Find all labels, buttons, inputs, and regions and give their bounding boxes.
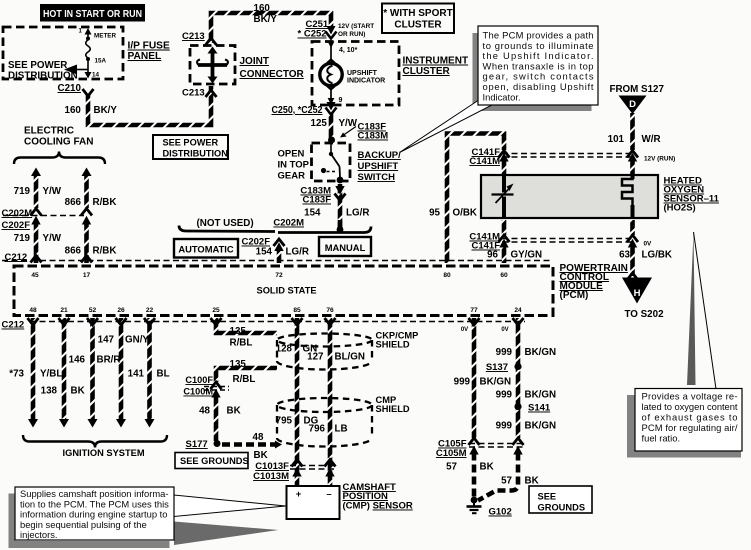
svg-text:0V: 0V <box>501 327 508 333</box>
svg-text:Provides a voltage re-: Provides a voltage re- <box>642 391 738 402</box>
svg-text:48: 48 <box>253 432 264 443</box>
svg-text:S141: S141 <box>528 403 551 414</box>
svg-text:BK/GN: BK/GN <box>480 377 512 388</box>
svg-text:C202M: C202M <box>273 218 304 229</box>
svg-text:138: 138 <box>41 386 58 397</box>
svg-text:R/BL: R/BL <box>230 338 253 349</box>
svg-text:57: 57 <box>446 462 457 473</box>
svg-text:80: 80 <box>443 272 451 279</box>
svg-text:95: 95 <box>429 208 440 219</box>
svg-text:SOLID STATE: SOLID STATE <box>257 286 317 296</box>
svg-text:HOT IN START OR RUN: HOT IN START OR RUN <box>43 9 142 20</box>
svg-text:BR/R: BR/R <box>97 355 121 366</box>
svg-text:* C252: * C252 <box>298 29 327 40</box>
svg-text:*73: *73 <box>9 369 24 380</box>
svg-text:PANEL: PANEL <box>128 51 162 62</box>
svg-text:0V: 0V <box>644 241 653 248</box>
svg-text:C100M: C100M <box>183 387 213 397</box>
svg-text:CLUSTER: CLUSTER <box>394 20 442 31</box>
svg-text:999: 999 <box>496 421 513 432</box>
svg-text:BK: BK <box>227 406 241 417</box>
svg-text:MANUAL: MANUAL <box>325 242 366 253</box>
svg-text:9: 9 <box>339 97 343 104</box>
svg-text:17: 17 <box>83 272 91 279</box>
svg-text:101: 101 <box>608 134 625 145</box>
svg-text:14: 14 <box>92 72 100 79</box>
svg-text:TO S202: TO S202 <box>625 309 665 320</box>
svg-text:C183M: C183M <box>358 131 389 142</box>
svg-text:Indicator.: Indicator. <box>483 91 521 102</box>
svg-text:C100F: C100F <box>185 375 213 385</box>
svg-text:I/P FUSE: I/P FUSE <box>128 41 170 52</box>
svg-text:C141M: C141M <box>469 156 500 167</box>
svg-text:BK/Y: BK/Y <box>94 105 118 116</box>
svg-text:C213: C213 <box>182 88 205 99</box>
svg-text:BK: BK <box>480 462 494 473</box>
svg-text:CLUSTER: CLUSTER <box>403 66 451 77</box>
svg-text:INSTRUMENT: INSTRUMENT <box>403 56 469 67</box>
svg-text:52: 52 <box>89 307 97 314</box>
svg-text:C212: C212 <box>5 252 28 263</box>
svg-text:OR RUN): OR RUN) <box>338 31 365 38</box>
svg-text:135: 135 <box>230 359 247 370</box>
svg-text:Y/W: Y/W <box>43 186 62 197</box>
svg-text:OPEN: OPEN <box>278 149 305 160</box>
svg-text:72: 72 <box>275 272 283 279</box>
svg-text:SEE GROUNDS: SEE GROUNDS <box>180 456 249 466</box>
svg-text:57: 57 <box>501 476 512 487</box>
svg-text:48: 48 <box>199 406 210 417</box>
svg-text:999: 999 <box>496 390 513 401</box>
svg-text:BK/Y: BK/Y <box>254 14 278 25</box>
svg-text:999: 999 <box>496 347 513 358</box>
svg-text:(CMP) SENSOR: (CMP) SENSOR <box>343 501 413 512</box>
svg-text:Y/BL: Y/BL <box>40 369 62 380</box>
svg-text:–: – <box>326 489 331 500</box>
svg-text:63: 63 <box>619 250 630 261</box>
svg-text:SWITCH: SWITCH <box>358 172 396 183</box>
svg-text:* WITH SPORT: * WITH SPORT <box>383 8 452 19</box>
svg-text:BL/GN: BL/GN <box>335 352 365 363</box>
svg-text:12V (RUN): 12V (RUN) <box>644 156 675 163</box>
svg-text:IGNITION SYSTEM: IGNITION SYSTEM <box>63 448 145 458</box>
svg-text:Y/W: Y/W <box>43 233 62 244</box>
svg-text:GEAR: GEAR <box>278 171 306 182</box>
svg-text:LG/R: LG/R <box>346 208 369 219</box>
svg-text:G102: G102 <box>489 507 512 518</box>
svg-text:76: 76 <box>326 307 334 314</box>
svg-text:PCM for regulating air/: PCM for regulating air/ <box>642 422 738 433</box>
svg-text:BK: BK <box>254 450 268 461</box>
svg-text:DISTRIBUTION: DISTRIBUTION <box>8 71 78 82</box>
svg-text:77: 77 <box>470 307 478 314</box>
svg-text:LB: LB <box>335 424 348 435</box>
svg-text:Y/W: Y/W <box>339 118 358 129</box>
svg-text:96: 96 <box>487 250 498 261</box>
svg-text:JOINT: JOINT <box>240 56 269 67</box>
svg-text:(NOT USED): (NOT USED) <box>197 218 254 229</box>
svg-text:H: H <box>634 288 641 299</box>
svg-text:719: 719 <box>14 233 31 244</box>
svg-text:INDICATOR: INDICATOR <box>347 78 385 85</box>
svg-text:BK/GN: BK/GN <box>525 347 557 358</box>
svg-text:of exhaust gases to: of exhaust gases to <box>642 412 738 423</box>
svg-text:D: D <box>629 99 636 110</box>
svg-text:SHIELD: SHIELD <box>376 404 410 414</box>
svg-text:W/R: W/R <box>642 134 661 145</box>
svg-text:48: 48 <box>29 307 37 314</box>
svg-text:S177: S177 <box>186 439 208 450</box>
svg-text:BK: BK <box>525 476 539 487</box>
svg-text:4, 10*: 4, 10* <box>339 47 358 54</box>
svg-text:154: 154 <box>256 247 273 258</box>
svg-text:60: 60 <box>500 272 508 279</box>
svg-text:BACKUP/: BACKUP/ <box>358 150 402 161</box>
svg-text:C202M: C202M <box>2 208 33 219</box>
svg-text:12V (START: 12V (START <box>338 23 374 30</box>
svg-text:(HO2S): (HO2S) <box>664 203 696 214</box>
svg-text:147: 147 <box>98 335 115 346</box>
svg-text:CONNECTOR: CONNECTOR <box>240 69 305 80</box>
svg-text:FROM S127: FROM S127 <box>610 84 665 95</box>
svg-text:GROUNDS: GROUNDS <box>538 503 586 513</box>
svg-text:125: 125 <box>311 118 328 129</box>
svg-text:LG/BK: LG/BK <box>642 250 672 261</box>
svg-text:0V: 0V <box>461 327 468 333</box>
svg-text:R/BK: R/BK <box>93 197 117 208</box>
svg-text:24: 24 <box>514 307 522 314</box>
svg-text:SHIELD: SHIELD <box>376 340 410 350</box>
svg-text:15A: 15A <box>95 58 107 65</box>
svg-text:154: 154 <box>304 208 321 219</box>
svg-text:+: + <box>296 489 302 500</box>
svg-text:C202F: C202F <box>2 220 31 231</box>
svg-text:LG/R: LG/R <box>286 247 309 258</box>
svg-text:BL: BL <box>157 369 170 380</box>
svg-text:C105M: C105M <box>436 448 467 459</box>
svg-text:injectors.: injectors. <box>20 529 58 540</box>
svg-text:C1013M: C1013M <box>253 471 289 482</box>
svg-text:796: 796 <box>309 424 326 435</box>
svg-text:C212: C212 <box>2 320 25 331</box>
svg-text:26: 26 <box>117 307 125 314</box>
svg-text:160: 160 <box>65 105 82 116</box>
svg-text:C183F: C183F <box>302 195 331 206</box>
svg-text:METER: METER <box>94 33 116 40</box>
svg-text:UPSHIFT: UPSHIFT <box>358 161 399 172</box>
svg-text:R/BL: R/BL <box>233 374 256 385</box>
svg-text:SEE POWER: SEE POWER <box>163 138 219 148</box>
svg-text:fuel ratio.: fuel ratio. <box>642 433 681 444</box>
svg-text:AUTOMATIC: AUTOMATIC <box>178 244 234 255</box>
svg-text:146: 146 <box>69 355 86 366</box>
svg-text:21: 21 <box>60 307 68 314</box>
svg-text:S137: S137 <box>486 362 508 373</box>
svg-text:COOLING FAN: COOLING FAN <box>24 137 93 148</box>
svg-text:C210: C210 <box>58 83 82 94</box>
svg-text:BK: BK <box>71 386 85 397</box>
svg-text:(PCM): (PCM) <box>560 290 589 301</box>
svg-text:UPSHIFT: UPSHIFT <box>347 70 378 77</box>
svg-text:BK/GN: BK/GN <box>525 390 557 401</box>
svg-text:719: 719 <box>14 186 31 197</box>
svg-text:999: 999 <box>454 377 471 388</box>
svg-text:C213: C213 <box>182 31 205 42</box>
svg-text:141: 141 <box>128 369 145 380</box>
svg-text:160: 160 <box>254 3 271 14</box>
svg-text:O/BK: O/BK <box>453 208 478 219</box>
svg-text:R/BK: R/BK <box>93 246 117 257</box>
svg-text:135: 135 <box>230 326 247 337</box>
svg-text:127: 127 <box>307 352 324 363</box>
svg-text:866: 866 <box>65 246 82 257</box>
svg-text:SEE POWER: SEE POWER <box>8 60 67 71</box>
svg-text:SEE: SEE <box>538 492 557 502</box>
svg-text:866: 866 <box>65 197 82 208</box>
svg-text:GY/GN: GY/GN <box>511 250 543 261</box>
svg-text:DISTRIBUTION: DISTRIBUTION <box>163 149 229 159</box>
svg-text:lated to oxygen content: lated to oxygen content <box>642 401 738 412</box>
svg-text:25: 25 <box>212 307 220 314</box>
svg-text:795: 795 <box>276 416 293 427</box>
svg-text:BK/GN: BK/GN <box>525 421 557 432</box>
svg-text:GN/Y: GN/Y <box>125 335 149 346</box>
svg-text:128: 128 <box>276 344 293 355</box>
svg-text:ELECTRIC: ELECTRIC <box>24 126 74 137</box>
svg-text:85: 85 <box>293 307 301 314</box>
svg-text:22: 22 <box>146 307 154 314</box>
svg-text:IN TOP: IN TOP <box>278 160 310 171</box>
svg-text:45: 45 <box>31 272 39 279</box>
svg-text:C250, *C252: C250, *C252 <box>272 105 323 116</box>
